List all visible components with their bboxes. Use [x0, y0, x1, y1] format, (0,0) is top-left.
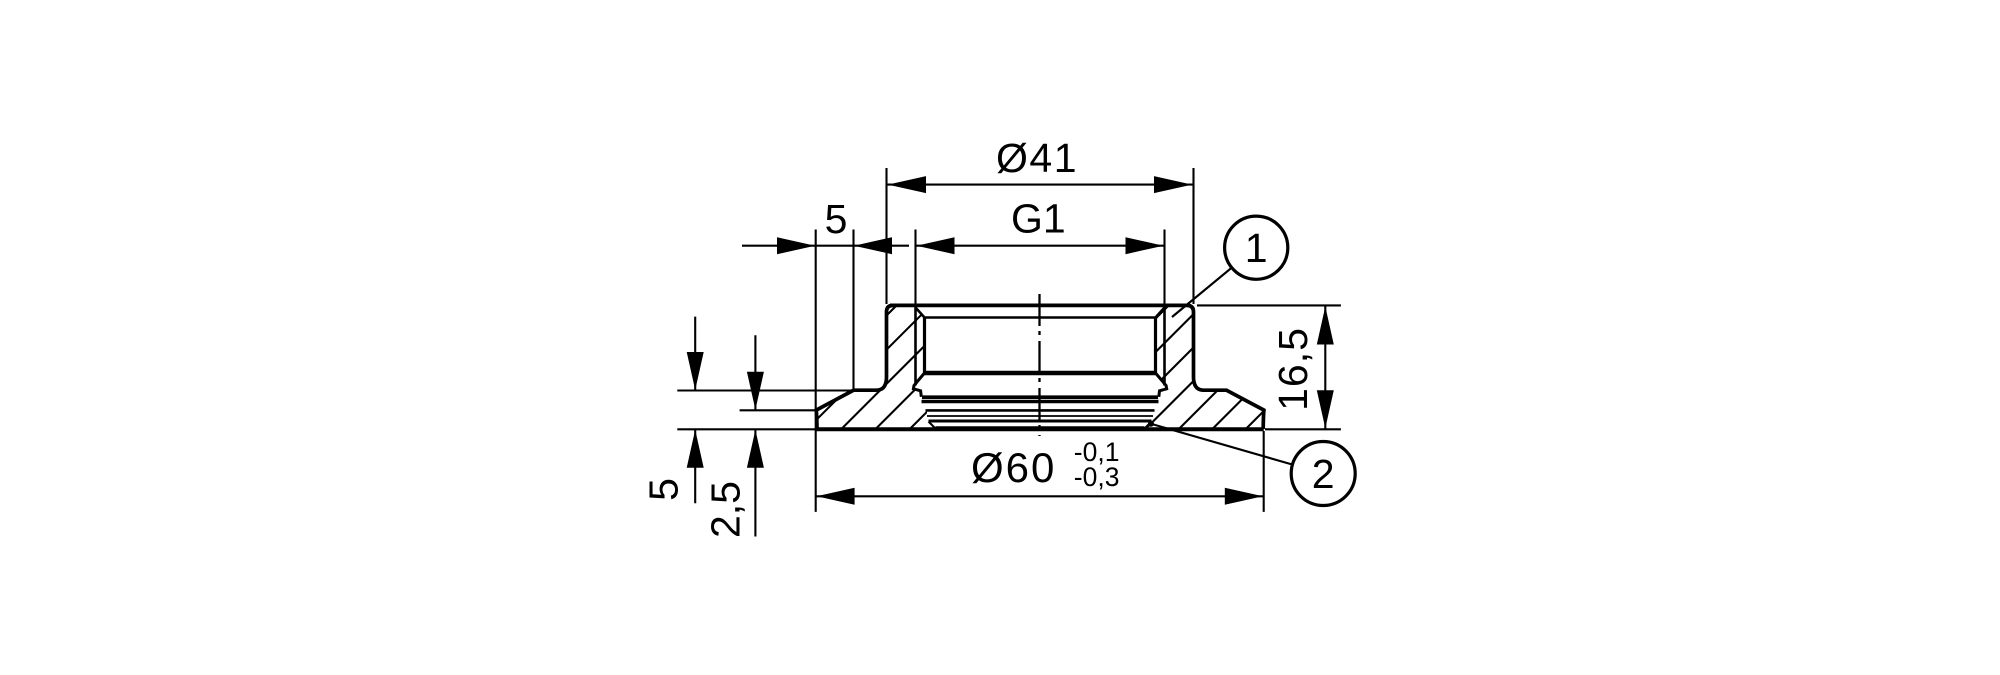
- dim G1 arrow right: [1126, 237, 1164, 254]
- dim 5 vertical arrow top: [687, 352, 704, 390]
- hatching left: [602, 200, 1139, 600]
- seal bottom chamfer right: [1145, 422, 1152, 429]
- dim Ø41 arrow right: [1154, 176, 1192, 193]
- svg-text:1: 1: [1245, 225, 1268, 271]
- svg-text:16,5: 16,5: [1270, 327, 1316, 411]
- flange base line: [816, 427, 1264, 431]
- dim 5 vertical line lower: [694, 430, 696, 504]
- dim Ø41 extension right: [1192, 168, 1194, 304]
- callout 2 leader: [1150, 424, 1292, 465]
- thread bottom line: [925, 371, 1156, 375]
- dim 16,5 arrow top: [1317, 307, 1334, 345]
- seal line mid: [926, 409, 1155, 412]
- seal line thin: [927, 415, 1153, 417]
- dim 5 vertical line upper: [694, 317, 696, 390]
- dim Ø60 arrow left: [817, 488, 855, 505]
- dim 2,5 vertical arrow top: [747, 372, 764, 410]
- body outline right: [1187, 305, 1264, 429]
- seal bottom chamfer left: [929, 422, 936, 429]
- dim 16,5 extension top: [1197, 304, 1341, 306]
- dim 5 horizontal arrow right: [854, 237, 892, 254]
- dim 5 horizontal line: [742, 245, 909, 247]
- seal seat chamfer right: [1156, 373, 1167, 397]
- dim 5 horizontal extension left: [815, 230, 817, 512]
- ref line lip tip level: [740, 409, 816, 411]
- thread minor line left: [923, 318, 926, 374]
- seal bottom edge: [936, 426, 1145, 428]
- dim 16,5 arrow bottom: [1317, 390, 1334, 428]
- dim 2,5 vertical line upper: [754, 335, 756, 410]
- thread minor line right: [1154, 318, 1157, 374]
- callout 2 leader start blob: [1148, 421, 1154, 427]
- dim 2,5 vertical line lower: [754, 430, 756, 537]
- dim Ø60 line: [816, 495, 1263, 497]
- thread mouth chamfer right: [1156, 308, 1165, 318]
- callout circle 1: [1225, 216, 1288, 279]
- thread mouth chamfer left: [916, 308, 925, 318]
- dim 5 horizontal arrow left: [777, 237, 815, 254]
- svg-text:-0,3: -0,3: [1074, 462, 1120, 492]
- svg-text:5: 5: [825, 196, 848, 242]
- dim 16,5 extension bottom: [1265, 428, 1341, 430]
- dim Ø41 extension left: [885, 168, 887, 304]
- ref line lip top level: [677, 389, 853, 391]
- dim G1 extension right: [1163, 230, 1165, 309]
- thread major line right: [1163, 308, 1166, 386]
- svg-text:2: 2: [1312, 451, 1335, 497]
- dim G1 line: [916, 245, 1165, 247]
- svg-text:2,5: 2,5: [703, 481, 749, 538]
- hatching right: [874, 200, 1475, 600]
- dim Ø41 line: [887, 184, 1193, 186]
- dim 5 vertical arrow bottom: [687, 430, 704, 468]
- seal line lower: [929, 420, 1152, 423]
- callout circle 2: [1291, 442, 1355, 506]
- dim G1 arrow left: [917, 237, 955, 254]
- ref line base level left: [677, 428, 815, 430]
- callout 1 leader: [1172, 268, 1232, 317]
- dim Ø60 arrow right: [1225, 488, 1263, 505]
- dim 2,5 vertical arrow bottom: [747, 430, 764, 468]
- seal seat chamfer left: [913, 373, 924, 397]
- dim G1 extension left: [914, 230, 916, 309]
- dim Ø60 extension right: [1263, 431, 1265, 512]
- body outline left: [816, 305, 893, 429]
- O-ring band upper: [922, 397, 1159, 401]
- dim Ø41 arrow left: [888, 176, 926, 193]
- body top face: [890, 303, 1190, 307]
- dim 5 horizontal extension right: [852, 230, 854, 391]
- thread major line left: [914, 308, 917, 386]
- svg-text:5: 5: [640, 478, 686, 501]
- centerline: [1038, 294, 1040, 436]
- svg-text:Ø60: Ø60: [971, 444, 1056, 491]
- bore top line: [925, 316, 1156, 319]
- dim 16,5 line: [1324, 305, 1326, 429]
- svg-text:G1: G1: [1011, 196, 1066, 242]
- svg-text:Ø41: Ø41: [996, 135, 1078, 181]
